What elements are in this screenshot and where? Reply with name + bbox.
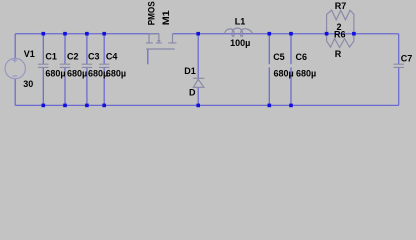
- svg-text:M1: M1: [161, 10, 171, 25]
- svg-text:C6: C6: [296, 52, 308, 62]
- capacitor C7: [394, 64, 404, 67]
- svg-text:R: R: [335, 49, 342, 59]
- wire V1 top lead: [14, 34, 16, 59]
- wire switch node to D1 cathode: [197, 34, 199, 79]
- svg-text:680µ: 680µ: [106, 68, 126, 78]
- node C5 top: [268, 32, 272, 36]
- svg-text:PMOS: PMOS: [147, 1, 157, 25]
- svg-text:R6: R6: [334, 29, 346, 39]
- wire V1 bottom lead: [14, 79, 16, 106]
- svg-text:C3: C3: [88, 52, 100, 62]
- node C3 top: [85, 32, 89, 36]
- inductor L1: [224, 28, 252, 36]
- svg-text:680µ: 680µ: [296, 68, 316, 78]
- wire C4 leads: [103, 34, 105, 106]
- svg-text:680µ: 680µ: [67, 68, 87, 78]
- node C1 top: [42, 32, 46, 36]
- wire C2 leads: [64, 34, 66, 106]
- transistor M1 (PMOS, rotated): [146, 34, 177, 49]
- node C4 bottom: [102, 104, 106, 108]
- wire C7 top lead: [398, 34, 400, 64]
- svg-text:C5: C5: [273, 52, 285, 62]
- capacitor C2: [60, 64, 70, 67]
- svg-text:30: 30: [23, 79, 33, 89]
- node R right: [352, 32, 356, 36]
- wire C7 bottom lead: [398, 67, 400, 105]
- capacitor C3: [82, 64, 92, 67]
- node C2 top: [63, 32, 67, 36]
- voltage source V1: [5, 58, 25, 79]
- capacitor C1: [38, 64, 48, 67]
- wire C5 leads: [268, 34, 270, 106]
- svg-text:C7: C7: [401, 53, 413, 63]
- svg-text:D: D: [189, 88, 196, 98]
- wire C3 leads: [86, 34, 88, 106]
- wire C1 leads: [42, 34, 44, 106]
- svg-text:680µ: 680µ: [274, 68, 294, 78]
- node D1 bottom: [196, 104, 200, 108]
- node C1 bottom: [42, 104, 46, 108]
- node C2 bottom: [63, 104, 67, 108]
- diode D1: [193, 78, 204, 87]
- resistor R6: [327, 34, 354, 48]
- svg-text:C2: C2: [67, 52, 79, 62]
- resistor R7: [327, 10, 354, 34]
- wire C6 leads: [290, 34, 292, 106]
- node switch top: [196, 32, 200, 36]
- junction nodes (blue squares): [42, 32, 356, 107]
- wire top rail right (PMOS drain to C7): [173, 33, 399, 35]
- svg-text:100µ: 100µ: [230, 38, 250, 48]
- capacitor C4: [99, 64, 109, 67]
- svg-text:V1: V1: [24, 49, 35, 59]
- svg-text:R7: R7: [335, 1, 347, 11]
- node C6 top: [289, 32, 293, 36]
- svg-text:L1: L1: [235, 17, 246, 27]
- svg-text:D1: D1: [184, 66, 196, 76]
- svg-text:C4: C4: [106, 52, 118, 62]
- node C4 top: [102, 32, 106, 36]
- wire D1 anode to ground rail: [197, 87, 199, 105]
- node C6 bottom: [289, 104, 293, 108]
- svg-text:C1: C1: [45, 52, 57, 62]
- node R left: [325, 32, 329, 36]
- node C3 bottom: [85, 104, 89, 108]
- wire bottom rail: [15, 104, 399, 106]
- wire top rail left (Vin to PMOS source): [15, 33, 159, 35]
- node C5 bottom: [268, 104, 272, 108]
- svg-text:680µ: 680µ: [45, 68, 65, 78]
- wire M1 gate lead: [147, 49, 149, 64]
